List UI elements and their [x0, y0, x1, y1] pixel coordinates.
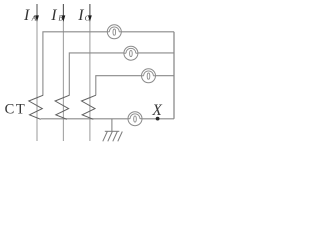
wire: phase A primary conductor [36, 4, 38, 141]
CT secondary winding C (zigzag) [82, 95, 96, 119]
meter U3 (row 3) [142, 69, 156, 83]
wire: phase C primary conductor [89, 4, 91, 141]
svg-text:B: B [58, 14, 63, 23]
ground [103, 119, 123, 142]
wire: secondary riser phase A [43, 32, 107, 95]
CT secondary winding A (zigzag) [29, 95, 43, 119]
svg-text:A: A [31, 14, 37, 23]
svg-text:X: X [151, 102, 162, 119]
svg-text:I: I [23, 7, 30, 24]
wire: row 1 right of meter to bus [121, 31, 174, 33]
arrow: current direction IA [35, 4, 39, 22]
wire: row 3 right of meter to bus [156, 75, 174, 77]
wire: row 2 right of meter to bus [138, 52, 174, 54]
wire: phase B primary conductor [62, 4, 64, 141]
wire: secondary riser phase C [96, 76, 142, 96]
CT secondary winding B (zigzag) [55, 95, 69, 119]
wire: right vertical bus [173, 32, 175, 119]
wire: secondary riser phase B [69, 53, 124, 95]
arrow: current direction IB [62, 4, 66, 22]
wire: bottom common bus left of meter [41, 118, 128, 120]
node X junction dot [156, 117, 160, 121]
arrow: current direction IC [88, 4, 92, 22]
meter U2 (row 2) [124, 46, 138, 60]
wire: bottom common bus right of meter [142, 118, 174, 120]
svg-text:I: I [50, 7, 57, 24]
svg-text:I: I [77, 7, 84, 24]
meter U4 (neutral / residual) [128, 112, 142, 126]
meter U1 (row 1) [107, 25, 121, 39]
svg-text:CT: CT [5, 102, 27, 118]
